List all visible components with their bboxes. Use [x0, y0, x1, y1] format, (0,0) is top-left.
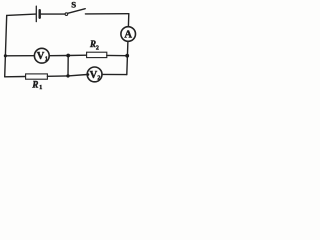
junction dot bottom row: [66, 74, 69, 77]
battery cell: long plate: [35, 6, 37, 21]
voltmeter V2 circle: [87, 67, 102, 82]
wire left edge: [5, 15, 7, 76]
svg-text:1: 1: [39, 85, 42, 91]
voltmeter V1 circle: [34, 48, 49, 63]
wire R1 to bottom junction: [47, 75, 68, 77]
wire bottom junction to V2: [68, 75, 87, 76]
svg-text:S: S: [71, 0, 76, 10]
junction dot right T: [125, 54, 129, 58]
wire middle row left: [5, 55, 34, 57]
junction dot at V2 left: [87, 73, 90, 76]
wire right edge down to ammeter: [127, 14, 129, 27]
wire ammeter to bottom-right corner: [127, 41, 128, 74]
svg-text:V: V: [37, 51, 45, 62]
switch S pivot circle: [65, 13, 68, 16]
svg-text:R: R: [31, 79, 38, 89]
resistor R2 box: [87, 52, 107, 57]
junction dot left T: [4, 54, 7, 57]
wire battery to switch: [41, 13, 65, 15]
resistor R1 box: [26, 74, 48, 79]
battery cell: short thick plate: [39, 10, 41, 18]
wire vertical connector middle node: [67, 56, 69, 76]
ammeter A circle: [121, 27, 136, 42]
wire bottom row left: [5, 76, 26, 78]
wire V2 to bottom-right corner: [102, 73, 127, 75]
svg-text:2: 2: [96, 46, 99, 52]
wire middle junction to R2: [68, 54, 86, 56]
svg-text:V: V: [90, 70, 98, 81]
switch S lever: [68, 9, 86, 14]
wire top-left segment: [7, 14, 36, 15]
junction dot middle row: [66, 54, 70, 58]
svg-text:1: 1: [45, 57, 48, 63]
svg-text:A: A: [124, 30, 132, 41]
wire R2 to right edge: [107, 54, 127, 56]
svg-text:2: 2: [97, 75, 100, 81]
wire V1 to middle junction: [49, 55, 68, 57]
wire switch to top-right corner: [85, 13, 128, 15]
